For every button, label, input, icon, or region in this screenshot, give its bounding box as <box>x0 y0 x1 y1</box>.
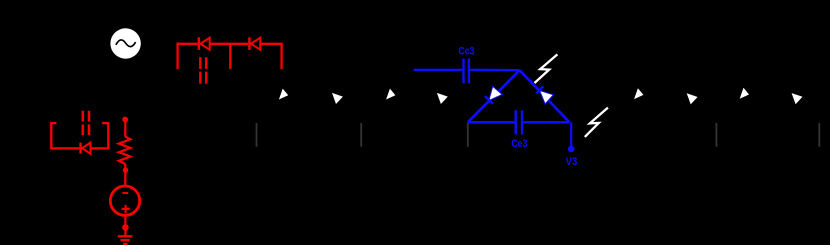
wire: gray phase stub node B <box>360 123 362 147</box>
svg-text:V3: V3 <box>566 156 578 168</box>
fault marker 2 (lightning bolt) <box>585 108 608 137</box>
wire: blue right diagonal <box>520 70 570 122</box>
AC source V1 <box>110 28 140 58</box>
diode DA1 arrow <box>279 89 288 100</box>
diode DB1 arrow <box>386 89 395 100</box>
diode D3 <box>81 143 91 154</box>
wire: red loop bottom segment 2 <box>91 147 110 149</box>
ground <box>118 236 133 244</box>
diode DA2 arrow <box>332 93 343 104</box>
diode De3 (blue, on right diagonal) <box>536 86 552 103</box>
wire: blue bottom segment 1 <box>468 121 515 124</box>
wire: blue output drop <box>570 122 572 146</box>
node V3 <box>568 146 575 153</box>
wire: red middle drop <box>229 45 231 69</box>
diode Dc3 (blue, on left diagonal) <box>485 87 502 103</box>
wire: red loop bottom segment 1 <box>50 147 79 149</box>
resistor R1 <box>119 122 131 187</box>
wire: blue input segment 1 <box>414 69 463 71</box>
capacitor C2 (parallel with D3) <box>83 111 89 135</box>
capacitor C1 (parallel with D1) <box>200 57 206 83</box>
diode DE2 arrow <box>792 93 803 104</box>
diode DB2 arrow <box>437 93 448 104</box>
wire: red top bus segment 1 <box>177 43 198 45</box>
diode DD2 arrow <box>687 93 698 104</box>
svg-text:Ce3: Ce3 <box>511 138 528 150</box>
diode D1 <box>199 37 210 50</box>
wire: blue left diagonal <box>468 70 520 122</box>
node: resistor bottom junction <box>123 168 128 173</box>
node: ground junction <box>122 224 129 231</box>
wire: red right drop <box>280 45 282 69</box>
wire: source to ground <box>124 216 126 237</box>
node: resistor top junction <box>122 117 128 123</box>
wire: red loop left bracket <box>50 122 56 149</box>
voltage source V2 <box>110 186 139 215</box>
wire: red loop right bracket <box>102 122 109 149</box>
wire: gray phase stub node A <box>256 123 258 147</box>
wire: gray phase stub node C <box>467 123 469 147</box>
wire: red left drop <box>176 43 178 69</box>
wire: red top bus segment 3 <box>260 43 282 45</box>
svg-text:Cc3: Cc3 <box>458 46 475 58</box>
wire: blue input segment 2 <box>470 69 519 72</box>
wire: blue bottom segment 2 <box>523 121 569 124</box>
diode DE1 arrow <box>740 88 749 99</box>
diode D2 <box>249 37 260 50</box>
diode DD1 arrow <box>634 88 643 99</box>
capacitor Ce3 <box>516 110 522 134</box>
wire: gray phase stub node D <box>715 123 717 147</box>
wire: gray phase stub node E <box>818 123 820 147</box>
fault marker 1 (lightning bolt) <box>535 54 558 83</box>
capacitor Cc3 <box>464 59 469 84</box>
wire: red top bus segment 2 <box>210 43 249 45</box>
